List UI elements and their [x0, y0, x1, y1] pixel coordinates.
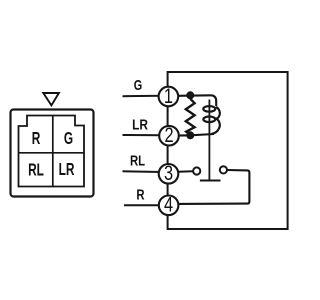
junction dot top: [186, 91, 194, 99]
switch contact right: [220, 166, 227, 173]
armature link line: [208, 100, 210, 180]
wire: coil bottom to terminal 2: [178, 134, 214, 136]
connector cavity divider horizontal: [19, 152, 85, 154]
svg-text:R: R: [32, 129, 41, 149]
svg-text:RL: RL: [28, 160, 44, 180]
resistor (parallel with coil): [186, 99, 195, 135]
svg-text:G: G: [64, 129, 73, 149]
wire stub RL: [123, 170, 163, 173]
svg-text:RL: RL: [130, 152, 145, 169]
wire: right contact to terminal 4: [179, 170, 249, 204]
svg-text:2: 2: [164, 123, 173, 146]
connector cavity divider vertical: [52, 116, 54, 187]
connector polarity triangle: [43, 93, 59, 105]
relay coil right-side arcs: [216, 107, 220, 119]
terminal 2: [159, 126, 179, 146]
terminal 1: [159, 87, 179, 107]
svg-text:LR: LR: [132, 116, 148, 132]
terminal 4: [159, 196, 179, 216]
svg-text:G: G: [134, 76, 142, 93]
svg-text:LR: LR: [59, 160, 75, 180]
wire stub LR: [123, 134, 163, 136]
terminal 3: [159, 164, 179, 184]
armature contact bar: [200, 180, 221, 182]
wire: terminal 3 to contact: [178, 170, 193, 173]
svg-text:3: 3: [164, 161, 173, 184]
connector inner housing outline: [19, 116, 85, 187]
junction dot bottom: [186, 131, 194, 139]
wire: terminal 1 to coil top: [178, 95, 216, 106]
wire stub G: [123, 95, 163, 97]
switch contact left: [193, 167, 200, 174]
wire stub R: [124, 204, 162, 206]
relay coil loop 2: [203, 117, 215, 123]
relay coil loop 1: [203, 106, 215, 112]
relay case box: [168, 72, 288, 229]
svg-text:4: 4: [164, 193, 173, 216]
svg-text:1: 1: [164, 84, 173, 107]
svg-text:R: R: [136, 186, 145, 203]
connector outer housing: [11, 110, 94, 197]
